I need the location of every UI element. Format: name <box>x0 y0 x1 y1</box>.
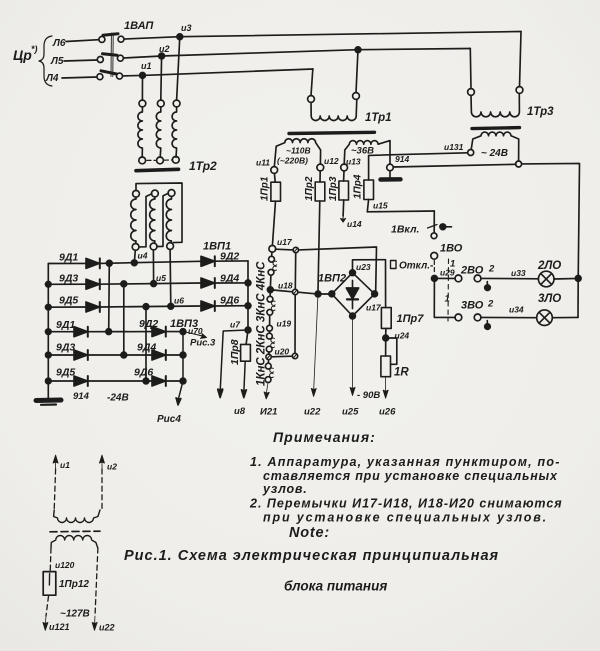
wire и18 to bridge left <box>298 292 316 294</box>
wire right column of 1ВП1 <box>247 261 249 330</box>
node и4 <box>134 250 147 263</box>
svg-text:1КнС 2КнС 3КнС 4КнС: 1КнС 2КнС 3КнС 4КнС <box>256 261 268 386</box>
wire и15 <box>367 201 434 212</box>
svg-text:узлов.: узлов. <box>262 482 308 496</box>
winding secondary 1Тр12 <box>51 536 98 549</box>
wire row2 lower <box>88 352 152 358</box>
svg-text:-24В: -24В <box>107 393 129 404</box>
diode 9Д5 lower <box>46 367 88 387</box>
svg-text:И21: И21 <box>260 407 277 418</box>
svg-text:1: 1 <box>445 294 450 305</box>
node и13 <box>341 157 361 171</box>
svg-text:1Тр2: 1Тр2 <box>189 159 217 173</box>
core of 1Тр1 <box>289 132 375 133</box>
svg-text:Примечания:: Примечания: <box>273 429 376 445</box>
svg-text:3ЛО: 3ЛО <box>538 293 561 305</box>
svg-text:Рис.1. Схема электрическая при: Рис.1. Схема электрическая принципиальна… <box>124 548 499 564</box>
diode 9Д5 upper <box>46 295 100 313</box>
fuse 1Пр12 <box>43 572 89 596</box>
resistor 1R <box>381 341 409 379</box>
arrow и26 <box>379 377 396 418</box>
svg-text:Л5: Л5 <box>50 56 64 67</box>
svg-text:и17: и17 <box>366 303 382 313</box>
wire и2 <box>124 44 470 59</box>
svg-text:2: 2 <box>487 299 494 310</box>
svg-text:1R: 1R <box>394 367 409 379</box>
arrow и21 <box>260 383 277 418</box>
svg-text:*): *) <box>31 44 38 54</box>
wire и1 <box>123 61 313 78</box>
arrow и25 bridge bottom <box>342 319 359 417</box>
svg-text:и19: и19 <box>277 319 292 329</box>
fuse 1Пр8 <box>229 330 250 365</box>
node и5 <box>153 250 166 284</box>
button contact 3КнС <box>267 292 275 325</box>
wire row1 lower <box>88 329 152 335</box>
connector pin и18 <box>293 289 298 294</box>
svg-text:1Пр2: 1Пр2 <box>304 176 315 201</box>
svg-text:9Д5: 9Д5 <box>59 295 78 307</box>
wire to right rail down <box>522 163 580 317</box>
winding ~36В of 1Тр1 <box>344 141 390 165</box>
svg-text:и23: и23 <box>356 262 371 272</box>
svg-text:и1: и1 <box>141 61 152 71</box>
arrow и22 (dashed unit) <box>92 616 114 633</box>
svg-text:и7: и7 <box>230 320 241 330</box>
svg-text:1Пр8: 1Пр8 <box>229 339 241 365</box>
arrow и121 <box>43 616 70 632</box>
diode 9Д6 upper <box>201 295 251 312</box>
brace for phase lines <box>39 36 52 86</box>
switch 3ВО <box>455 299 494 330</box>
svg-text:и11: и11 <box>256 158 270 168</box>
svg-text:Note:: Note: <box>289 525 330 541</box>
svg-text:ставляется при установке специ: ставляется при установке специальных <box>263 469 558 483</box>
svg-text:Откл.-: Откл.- <box>399 261 434 272</box>
svg-text:1Пр3: 1Пр3 <box>328 176 339 201</box>
node и18 <box>267 281 293 293</box>
node и6 <box>170 249 184 306</box>
svg-text:~ 24В: ~ 24В <box>481 148 508 159</box>
svg-text:и3: и3 <box>181 23 192 33</box>
svg-text:и121: и121 <box>49 622 70 632</box>
svg-text:и70: и70 <box>188 326 203 336</box>
wire Л4 <box>45 73 97 84</box>
mechanical link 1ВО-2ВО-3ВО <box>445 259 450 321</box>
diode 9Д1 lower <box>46 319 88 337</box>
fuse 1Пр7 <box>381 308 424 336</box>
svg-text:1ВП1: 1ВП1 <box>203 241 231 253</box>
diode 9Д6 lower <box>134 367 186 387</box>
svg-text:1Пр7: 1Пр7 <box>397 313 425 325</box>
column row3-row3 lower <box>145 307 147 381</box>
svg-text:и29: и29 <box>440 268 455 278</box>
svg-text:Л6: Л6 <box>52 38 66 49</box>
wire row3 upper <box>100 303 201 309</box>
wire и34 <box>481 305 537 318</box>
column row1-row1 lower <box>108 263 111 331</box>
svg-text:2. Перемычки И17-И18, И18-И20: 2. Перемычки И17-И18, И18-И20 снимаются <box>249 497 563 511</box>
connector pin и20 <box>266 347 290 360</box>
arrow и14 <box>341 214 362 229</box>
rectifier bridge 1ВП2 <box>318 262 382 319</box>
svg-text:2ВО: 2ВО <box>460 265 484 277</box>
svg-text:блока питания: блока питания <box>284 579 387 594</box>
button contact 4КнС <box>268 252 277 287</box>
svg-text:9Д1: 9Д1 <box>56 319 75 331</box>
fuse 1Пр1 <box>260 173 281 245</box>
node Цр label <box>13 44 38 63</box>
wire и33 <box>481 268 539 279</box>
fuse 1Пр4 <box>353 174 374 212</box>
svg-text:9Д5: 9Д5 <box>56 367 75 379</box>
svg-text:и131: и131 <box>444 142 464 152</box>
svg-text:и1: и1 <box>60 460 70 470</box>
column row2-row2 lower <box>123 284 125 355</box>
node и12 <box>317 156 339 171</box>
jumper И18-И20 <box>294 295 296 354</box>
node и24 <box>383 331 410 341</box>
svg-text:9Д3: 9Д3 <box>56 342 75 354</box>
svg-text:1Пр1: 1Пр1 <box>260 176 271 201</box>
svg-text:и20: и20 <box>275 347 290 357</box>
wire 1ВП3 right column and arrow Рис4 <box>157 332 183 425</box>
arrow и2 (dashed unit) <box>99 455 117 472</box>
jumper И17-И18 <box>294 253 296 290</box>
svg-text:и12: и12 <box>324 156 339 166</box>
wire Л6 <box>52 38 99 49</box>
arrow и22 from 1Пр2 column <box>304 294 321 418</box>
svg-text:Л4: Л4 <box>45 73 59 84</box>
svg-text:и33: и33 <box>511 268 526 278</box>
node и11 <box>256 158 278 174</box>
svg-text:~110В: ~110В <box>286 146 311 156</box>
svg-text:3ВО: 3ВО <box>461 300 484 312</box>
wire и1 drop to 1Тр2 <box>141 75 143 100</box>
diode 9Д3 upper <box>46 273 100 290</box>
wire row2 upper <box>100 281 201 287</box>
wire и3 drop to 1Тр2 <box>177 37 180 101</box>
svg-text:и34: и34 <box>509 305 524 315</box>
svg-text:и26: и26 <box>379 407 396 418</box>
wire и24 tap loop <box>389 338 397 364</box>
wire и20 row <box>271 355 292 358</box>
svg-text:Рис4: Рис4 <box>157 414 181 425</box>
svg-text:1Тр3: 1Тр3 <box>527 106 554 118</box>
svg-text:9Д3: 9Д3 <box>59 273 78 285</box>
button contact 2КнС <box>266 331 274 354</box>
diode 9Д1 upper <box>48 252 100 269</box>
diode 9Д4 upper <box>201 273 251 289</box>
svg-text:1ВО: 1ВО <box>440 243 463 255</box>
svg-text:и18: и18 <box>278 281 293 291</box>
svg-text:и22: и22 <box>99 623 115 633</box>
node и19 <box>267 319 292 332</box>
node и7 <box>230 320 251 333</box>
winding ~110В (~220В) of 1Тр1 <box>274 139 320 167</box>
core of 1Тр2 <box>136 169 179 170</box>
svg-text:и13: и13 <box>346 157 361 167</box>
svg-text:9Д1: 9Д1 <box>59 252 78 264</box>
node on ~24В right terminal <box>516 161 522 167</box>
svg-text:9Д6: 9Д6 <box>134 367 153 379</box>
transformer 1Тр2 primary <box>138 100 180 164</box>
winding ~24В of 1Тр3 <box>444 132 519 161</box>
switch 1Вкл <box>391 211 452 239</box>
arrow from и7 left <box>218 330 248 398</box>
connector pin и17 <box>293 247 298 252</box>
fuse 1Пр2 <box>304 171 325 292</box>
svg-text:и25: и25 <box>342 407 359 418</box>
svg-text:Цр: Цр <box>13 47 32 63</box>
core of 1Тр3 <box>472 128 520 129</box>
svg-text:и4: и4 <box>138 251 148 261</box>
wire и17 row <box>276 248 293 251</box>
ground 914 <box>381 154 410 180</box>
svg-text:9Д6: 9Д6 <box>220 295 239 307</box>
node и17 <box>269 237 293 252</box>
svg-text:914: 914 <box>395 154 409 164</box>
fuse 1Пр3 <box>328 171 349 216</box>
arrow и8 <box>234 361 246 417</box>
svg-text:1Вкл.: 1Вкл. <box>391 224 420 236</box>
svg-text:Рис.3: Рис.3 <box>190 338 216 349</box>
switch 1ВАП <box>97 20 154 80</box>
svg-text:и2: и2 <box>107 462 117 472</box>
wire row3 lower <box>88 378 152 384</box>
svg-text:- 90В: - 90В <box>357 390 380 401</box>
left bus <box>47 264 49 399</box>
wire и3 <box>124 23 521 40</box>
svg-text:и14: и14 <box>347 219 362 229</box>
wire bridge top to 1Пр7 <box>353 260 386 308</box>
wire и17 row to bridge right <box>299 247 377 291</box>
svg-text:и22: и22 <box>304 407 321 418</box>
svg-text:1Пр4: 1Пр4 <box>353 174 364 199</box>
lamp 2ЛО <box>537 260 581 287</box>
svg-text:и8: и8 <box>234 406 246 417</box>
arrow и70 to Рис.3 <box>183 326 216 349</box>
arrow и1 (dashed unit) <box>53 455 70 470</box>
diode 9Д4 lower <box>137 342 186 361</box>
core 1Тр12 (dashed) <box>50 530 100 533</box>
svg-text:1Тр1: 1Тр1 <box>365 112 392 124</box>
wire и131 to 1Пр4 <box>369 153 468 180</box>
svg-text:2ЛО: 2ЛО <box>537 260 561 272</box>
svg-text:и15: и15 <box>373 201 388 211</box>
svg-text:1. Аппаратура, указанная пункт: 1. Аппаратура, указанная пунктиром, по- <box>250 455 561 469</box>
diode 9Д3 lower <box>46 342 88 361</box>
node junction 1Пр2/bridge/и22 <box>315 291 321 297</box>
svg-text:1Пр12: 1Пр12 <box>59 579 89 590</box>
switch 1ВО <box>431 243 463 282</box>
transformer 1Тр2 secondary zigzag <box>131 183 182 250</box>
svg-text:(~220В): (~220В) <box>277 156 308 166</box>
svg-text:и6: и6 <box>174 296 184 306</box>
winding primary 1Тр12 <box>54 510 100 523</box>
svg-text:914: 914 <box>73 391 90 402</box>
Откл position mark <box>391 261 434 272</box>
wire и18 row <box>273 290 292 292</box>
diode 9Д2 lower <box>139 318 198 337</box>
svg-text:и5: и5 <box>156 273 166 283</box>
wire Л5 <box>50 56 97 67</box>
connector pin и20 jumper <box>292 353 297 358</box>
wire row1 upper <box>100 260 201 266</box>
svg-text:и17: и17 <box>277 237 293 247</box>
button contact 1КнС <box>265 360 273 383</box>
svg-text:2: 2 <box>488 264 495 275</box>
wire 914 to right rail <box>393 164 516 167</box>
svg-text:при установке специальных узло: при установке специальных узлов. <box>263 511 548 525</box>
lamp 3ЛО <box>537 293 578 326</box>
wire to 3ВО <box>434 278 455 317</box>
optional transformer unit (dashed) <box>46 469 102 616</box>
svg-text:и120: и120 <box>55 560 75 570</box>
diode 9Д2 upper <box>201 241 248 267</box>
svg-text:~127В: ~127В <box>60 609 90 620</box>
ground symbol 914 <box>36 400 61 405</box>
transformer 1Тр3 primary <box>468 32 523 117</box>
svg-text:1ВАП: 1ВАП <box>124 20 154 32</box>
wire и2 drop to 1Тр2 <box>160 56 163 100</box>
transformer 1Тр1 primary <box>308 50 360 121</box>
wire bridge left input <box>318 293 329 295</box>
switch 2ВО <box>437 264 495 291</box>
